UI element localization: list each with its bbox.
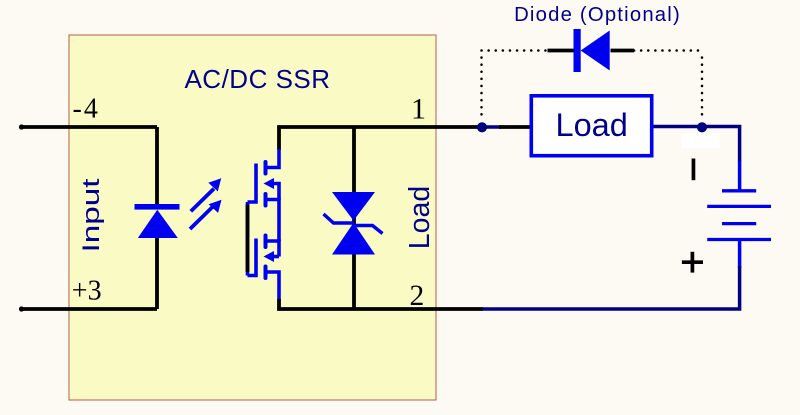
wire: LED to bottom bbox=[155, 235, 159, 309]
Q1 top body arrow bbox=[264, 178, 275, 189]
wire: battery to bottom rail (navy) bbox=[482, 266, 740, 309]
Q1 gate bus (blue corners) bbox=[246, 202, 250, 276]
dotted wire: right vertical bbox=[701, 58, 704, 120]
Q1 bottom body arrow bbox=[264, 251, 275, 262]
wire: navy stub after dot 1 bbox=[482, 125, 501, 128]
svg-text:-4: -4 bbox=[73, 94, 100, 125]
Q1 top: drain lead bbox=[266, 149, 280, 168]
battery BT1 plate short 2 bbox=[722, 222, 756, 225]
svg-text:AC/DC SSR: AC/DC SSR bbox=[184, 64, 330, 94]
MOSFET pair Q1 (output switch) bbox=[248, 149, 280, 300]
Q1 bottom: source channel dash bbox=[264, 236, 268, 248]
Q1 bottom: drain channel dash bbox=[264, 267, 268, 279]
diode D3 triangle bbox=[581, 31, 610, 71]
LED D1 cathode bar bbox=[135, 204, 180, 210]
wire: input pin 4 (top left) bbox=[22, 125, 158, 129]
node junction dot 1 bbox=[477, 122, 487, 132]
wire: top rail to MOSFET bbox=[279, 127, 482, 150]
wire: input pin 3 (bottom left) bbox=[22, 307, 158, 311]
wire: input vertical to LED bbox=[155, 127, 159, 206]
Q1 top: body stub bbox=[270, 184, 279, 200]
SSR body (yellow box) bbox=[69, 35, 436, 400]
LED D1 triangle bbox=[138, 210, 178, 238]
node junction dot 2 bbox=[697, 122, 707, 132]
wire: MOSFET drain to bottom rail bbox=[279, 299, 483, 309]
svg-text:1: 1 bbox=[411, 93, 426, 126]
Q1 bottom: drain stub bbox=[266, 272, 280, 300]
Q1 top: drain channel dash bbox=[264, 162, 268, 174]
TVS D2 zener crossbar left bbox=[324, 214, 355, 223]
Load box bbox=[531, 96, 651, 156]
battery BT1 plate long 2 bbox=[707, 238, 771, 241]
battery BT1 top lead bbox=[738, 161, 742, 191]
wire: dot 1 to load box bbox=[499, 125, 531, 129]
battery BT1 plate short 1 bbox=[722, 189, 756, 192]
Q1 gate bus black section bbox=[246, 205, 250, 273]
dotted wire: right horizontal bbox=[634, 49, 702, 52]
TVS D2 bottom triangle bbox=[332, 223, 375, 255]
Q1 top: source channel dash bbox=[264, 194, 268, 206]
Q1 bottom: source stub bbox=[266, 241, 280, 257]
white label patch near minus bbox=[681, 134, 720, 149]
label minus (rotated bar) bbox=[692, 159, 696, 181]
svg-text:Load: Load bbox=[404, 186, 436, 249]
wire: diode left lead bbox=[548, 49, 575, 53]
Q1 bottom: body stub bbox=[270, 255, 279, 259]
battery BT1 bottom lead bbox=[738, 240, 742, 269]
TVS D2 top triangle bbox=[332, 192, 375, 221]
label plus bbox=[682, 252, 703, 273]
Q1 bottom: gate bar bbox=[248, 239, 257, 276]
svg-text:2: 2 bbox=[410, 280, 425, 312]
wire: TVS vertical bbox=[352, 127, 356, 309]
Q1 top: source stub bbox=[266, 200, 280, 242]
LED emission arrow 1 bbox=[191, 179, 221, 211]
Q1 top: gate bar bbox=[248, 164, 257, 203]
battery BT1 plate long 1 bbox=[707, 205, 771, 208]
svg-text:Load: Load bbox=[556, 107, 628, 143]
dotted wire: left vertical bbox=[480, 58, 483, 120]
svg-text:Diode (Optional): Diode (Optional) bbox=[514, 4, 681, 26]
LED emission arrow 2 bbox=[190, 201, 221, 230]
svg-text:Input: Input bbox=[78, 178, 105, 252]
TVS D2 zener crossbar right bbox=[354, 226, 383, 234]
svg-text:+3: +3 bbox=[72, 275, 102, 306]
wire: load box to node 2 and battery (navy) bbox=[654, 127, 740, 163]
dotted wire: left horizontal bbox=[482, 49, 549, 52]
diode D3 cathode bar bbox=[574, 29, 581, 72]
wire: diode right lead bbox=[611, 49, 635, 53]
